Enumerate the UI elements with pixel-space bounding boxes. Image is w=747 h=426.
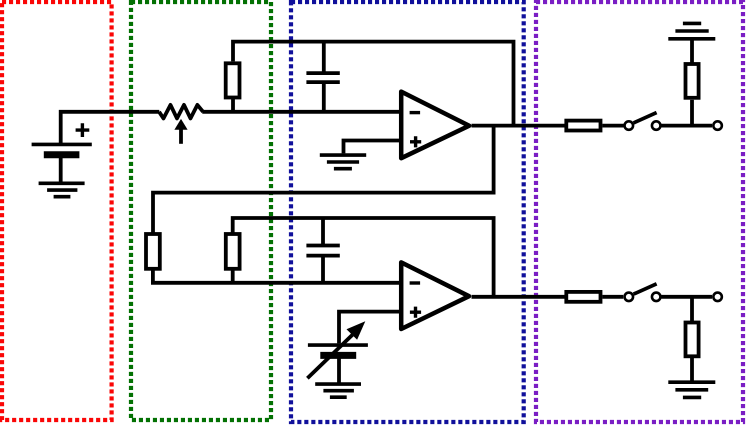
switch SW2 lever: [634, 284, 657, 294]
section box: input network (green dotted): [131, 2, 271, 420]
battery V1 plus label: [76, 123, 90, 137]
resistor R4 (stage2 feedback): [226, 234, 240, 269]
op-amp U1: [401, 92, 469, 159]
capacitor C1: [306, 73, 339, 82]
wire R6 to inverted ground: [690, 39, 694, 64]
resistor R6 (pull-up): [686, 64, 699, 98]
wire stage1 output down to stage2 input resistor: [153, 126, 494, 234]
switch SW2 throw circle: [652, 293, 661, 302]
wire C1 bottom lead: [322, 84, 326, 112]
op-amp U2: [401, 262, 469, 329]
wire feedback top (R2 top, over to output): [233, 42, 514, 126]
resistor R2 (feedback): [226, 63, 240, 97]
wire R8 to ground: [690, 356, 694, 382]
resistor R8 (pull-down): [686, 323, 699, 357]
op-amp U2 plus: [410, 307, 421, 318]
ground (B1): [315, 384, 361, 397]
wire C1 top lead: [322, 42, 326, 72]
potentiometer R1 zigzag: [159, 105, 203, 119]
wire stage2 feedback top: [233, 218, 494, 297]
ground (bottom right): [668, 382, 715, 397]
wire battery to ground: [59, 156, 63, 183]
battery V1 negative plate: [44, 151, 80, 158]
section box: amplifier (blue dotted): [291, 2, 524, 422]
wire U1 non-inverting input to ground: [344, 141, 402, 154]
wire U2 output: [472, 295, 567, 299]
battery V1 positive plate: [32, 143, 92, 147]
wire U1 output: [472, 124, 567, 128]
wire R2 bottom lead: [231, 98, 235, 112]
wire C2 bottom lead: [321, 258, 325, 283]
op-amp U2 minus: [410, 281, 421, 284]
ground (battery): [39, 183, 85, 196]
op-amp U1 minus: [410, 111, 421, 114]
resistor R7 (bottom output series): [566, 292, 600, 302]
switch SW1 lever: [634, 113, 657, 123]
wire R5 to switch SW1: [602, 124, 623, 128]
terminal T1 (open circle): [713, 121, 722, 130]
wire battery to potentiometer: [61, 112, 160, 144]
switch SW2 pole circle: [625, 293, 634, 302]
variable source B1 adjust arrow: [307, 335, 352, 379]
wire U2 non-inverting input to variable source: [339, 312, 401, 344]
wire SW1 to terminal: [662, 124, 713, 128]
capacitor C2: [306, 246, 339, 256]
wire junction up to R6: [690, 100, 694, 126]
op-amp U1 plus: [410, 136, 421, 147]
switch SW1 throw circle: [652, 121, 661, 130]
wire R7 to switch SW2: [602, 295, 623, 299]
section box: output (purple dotted): [536, 2, 743, 422]
variable source B1 bottom plate: [320, 352, 356, 359]
wire R3 bottom to U2 inverting input: [153, 269, 401, 283]
wire B1 to ground: [337, 357, 341, 384]
switch SW1 pole circle: [625, 121, 634, 130]
terminal T2 (open circle): [713, 293, 722, 302]
resistor R3 (stage2 input): [146, 234, 160, 269]
variable source B1 top plate: [308, 343, 368, 347]
ground (U1 plus input): [320, 155, 366, 169]
wire R4 bottom lead: [231, 269, 235, 283]
section box: source (red dotted): [2, 2, 112, 420]
ground (inverted, top right): [668, 23, 715, 38]
wire potentiometer to op-amp U1 inverting input: [202, 110, 401, 114]
wire C2 top lead: [321, 218, 325, 244]
wire junction down to R8: [690, 297, 694, 323]
wire SW2 to terminal: [662, 295, 713, 299]
potentiometer R1 wiper arrow: [179, 128, 183, 144]
resistor R5 (top output series): [566, 121, 600, 131]
